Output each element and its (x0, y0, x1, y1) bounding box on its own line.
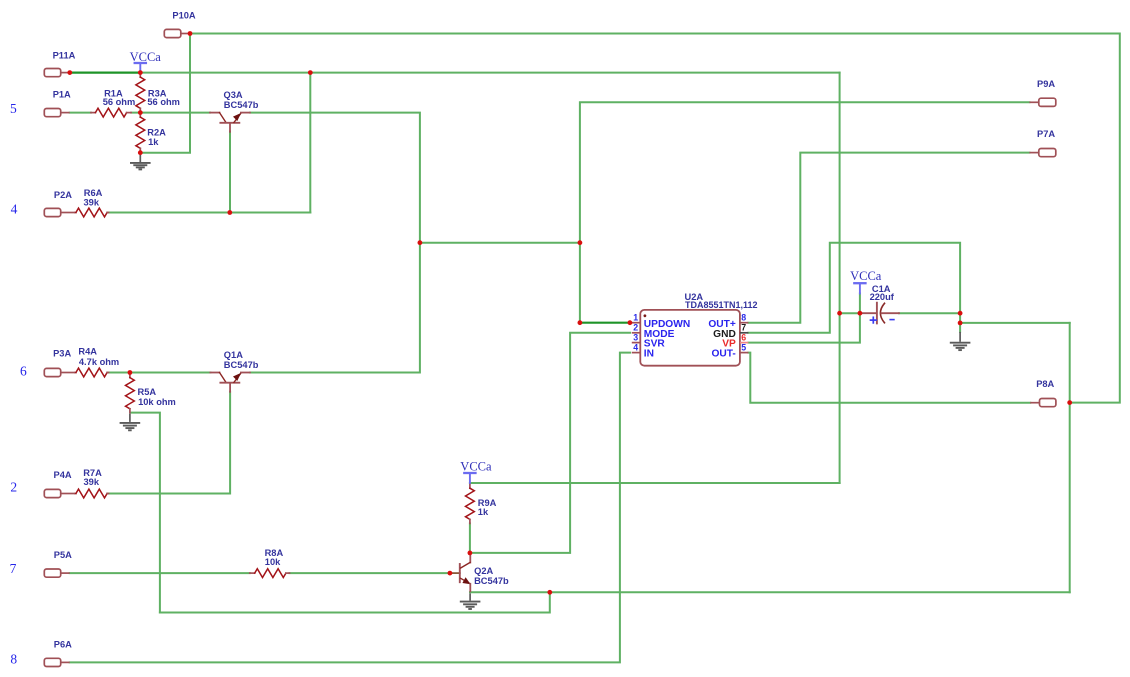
wire net UPDOWN: P9A run left and down to pin1 (580, 102, 1030, 322)
svg-text:Q2A: Q2A (474, 566, 493, 576)
node C1A minus junction (958, 311, 963, 316)
capacitor C1A 220uf (861, 303, 899, 324)
resistor R5A 10k ohm (125, 373, 134, 413)
node C1A row right junction (858, 311, 863, 316)
svg-text:P6A: P6A (54, 640, 72, 650)
svg-text:R5A: R5A (138, 387, 157, 397)
ground under R5A (120, 414, 141, 431)
wire net GND: C1A minus to ground column (899, 312, 960, 314)
svg-text:4.7k ohm: 4.7k ohm (79, 357, 119, 367)
wire net VCC: VCCa2 stem lower part (859, 294, 861, 314)
svg-text:VCCa: VCCa (460, 459, 492, 473)
svg-text:R2A: R2A (147, 127, 166, 137)
connector P11A (44, 69, 69, 77)
node VCCa1 junction (138, 70, 143, 75)
node pin1 left junction (578, 320, 583, 325)
resistor R1A 56 ohm (91, 108, 131, 117)
wire net VCC: row at R9A top (470, 482, 840, 484)
wire net GND: pin7 GND route up and over to ground col (748, 243, 960, 333)
pin 8 OUT+ stub (740, 322, 749, 324)
wire net GND: ground col to right riser (960, 322, 1070, 324)
connector P2A (44, 208, 75, 216)
svg-text:BC547b: BC547b (474, 576, 509, 586)
svg-text:4: 4 (633, 342, 638, 352)
svg-text:Q1A: Q1A (224, 350, 243, 360)
wire net IN: pin4 left down to P6A row (70, 353, 630, 663)
svg-text:P4A: P4A (54, 470, 72, 480)
connector P8A (1030, 399, 1056, 407)
svg-text:P3A: P3A (53, 349, 71, 359)
svg-text:7: 7 (741, 323, 746, 333)
resistor R7A 39k (75, 489, 109, 498)
svg-text:IN: IN (644, 349, 654, 360)
connector P6A (44, 658, 69, 666)
wire net R1A to node to Q3A (131, 112, 210, 114)
wire net UPDOWN dark segment to pin1 (580, 322, 630, 324)
wire net row6: R4A to Q1A with R5A junction (108, 372, 211, 374)
svg-text:OUT-: OUT- (711, 349, 735, 360)
svg-text:220uf: 220uf (870, 292, 895, 302)
svg-text:BC547b: BC547b (224, 100, 259, 110)
svg-text:6: 6 (741, 332, 746, 342)
resistor R2A 1k (136, 113, 145, 153)
wire net VCC dark segment P11A to VCCa1 node (70, 71, 141, 73)
pin 4 IN stub (632, 352, 641, 354)
svg-text:1k: 1k (148, 137, 159, 147)
supply VCCa symbol 3 (464, 473, 475, 483)
node mid link left junction (418, 240, 423, 245)
wire net VCC: right riser down (839, 73, 841, 483)
wire net MODE: pin2 left down to Q2A collector (470, 333, 630, 553)
svg-text:56 ohm: 56 ohm (147, 97, 180, 107)
svg-text:P7A: P7A (1037, 129, 1055, 139)
node R2A bottom junction (138, 150, 143, 155)
wire net Q1A base riser and row2 (108, 392, 231, 494)
wire net GND: Q2A emitter row (470, 591, 1070, 593)
svg-text:10k ohm: 10k ohm (138, 397, 176, 407)
wire net VCC: VP pin6 route (748, 313, 860, 342)
wire net GND: bottom run from left riser, up to emitter row (160, 592, 550, 612)
node Q3A base junction (227, 210, 232, 215)
resistor R9A 1k (466, 484, 475, 524)
svg-text:1k: 1k (478, 507, 489, 517)
wire net P5A to R8A (70, 572, 250, 574)
svg-text:P10A: P10A (172, 11, 196, 21)
svg-text:6: 6 (20, 363, 27, 378)
connector P4A (44, 489, 75, 497)
ground under Q2A (460, 593, 481, 609)
svg-text:2: 2 (10, 480, 17, 495)
connector P1A (44, 109, 69, 117)
wire net GND: R5A bottom to left riser (131, 413, 160, 613)
supply VCCa symbol 1 (135, 63, 146, 71)
node P8A junction (1067, 400, 1072, 405)
transistor Q2A BC547b (452, 553, 471, 591)
svg-text:VCCa: VCCa (850, 269, 882, 283)
pin 1 UPDOWN stub (632, 322, 641, 324)
wire net VCC: R6A riser (309, 73, 311, 213)
node C1A row left junction (837, 311, 842, 316)
wire net GND: P10A riser down to R2A bottom (141, 34, 190, 153)
resistor R4A 4.7k ohm (75, 368, 109, 377)
pin 7 GND stub (740, 332, 749, 334)
svg-text:39k: 39k (84, 477, 100, 487)
wire net P1A to R1A (70, 112, 91, 114)
svg-text:8: 8 (741, 313, 746, 323)
svg-text:10k: 10k (265, 557, 281, 567)
node P11A pin junction (67, 70, 72, 75)
pin 3 SVR stub (632, 342, 641, 344)
wire net UPDOWN: Q3A emitter to Q1A emitter loop (250, 113, 420, 373)
ground near C1A (950, 332, 971, 350)
wire net OUT+: P7A run left down to pin8 (748, 153, 1029, 323)
IC U2A TDA8551TN1,112 (632, 310, 749, 366)
pin 5 OUT- stub (740, 352, 749, 354)
svg-text:P9A: P9A (1037, 79, 1055, 89)
resistor R3A 56 ohm (136, 73, 145, 113)
node Q2A collector junction (468, 551, 473, 556)
wire net VCC: C1A row between dots (840, 312, 860, 314)
svg-text:7: 7 (10, 561, 17, 576)
svg-text:R4A: R4A (78, 346, 97, 356)
svg-text:VCCa: VCCa (130, 50, 162, 64)
wire net base Q2A row from R8A (290, 572, 450, 574)
svg-text:Q3A: Q3A (224, 90, 243, 100)
connector P10A (164, 29, 190, 37)
svg-text:2: 2 (633, 323, 638, 333)
connector P3A (44, 368, 75, 376)
node mid link right junction (578, 240, 583, 245)
resistor R6A 39k (75, 208, 109, 217)
svg-text:4: 4 (11, 201, 18, 216)
svg-text:P5A: P5A (54, 550, 72, 560)
svg-text:P2A: P2A (54, 190, 72, 200)
connector P7A (1029, 149, 1055, 157)
svg-text:TDA8551TN1,112: TDA8551TN1,112 (685, 300, 758, 310)
node ground col junction (958, 321, 963, 326)
node Q2A base junction (448, 571, 453, 576)
wire net row4: R6A to riser with Q3A base junction (108, 212, 311, 214)
node P10A junction (188, 31, 193, 36)
wire net GND: P10A top run, right edge down, to P8A junction (190, 34, 1120, 403)
node R1A R2A R3A junction (138, 110, 143, 115)
svg-text:P11A: P11A (53, 50, 76, 60)
svg-text:P8A: P8A (1036, 379, 1054, 389)
svg-text:8: 8 (10, 651, 17, 666)
wire net VCC: top row P11A to right riser (140, 72, 839, 74)
connector P5A (44, 569, 69, 577)
pin 6 VP stub (740, 342, 749, 344)
svg-text:1: 1 (633, 313, 638, 323)
svg-text:BC547b: BC547b (224, 360, 259, 370)
node pin1 right junction (628, 320, 633, 325)
wire net Q3A base riser (229, 132, 231, 213)
connector P9A (1029, 98, 1055, 106)
svg-text:56 ohm: 56 ohm (103, 97, 136, 107)
supply VCCa symbol 2 (854, 283, 865, 293)
svg-text:5: 5 (741, 342, 746, 352)
node R4A R5A junction (127, 370, 132, 375)
wire net UPDOWN: middle link (420, 242, 580, 244)
wire net GND: right riser down to emitter row (1069, 323, 1071, 592)
svg-text:P1A: P1A (53, 90, 71, 100)
transistor Q3A BC547b (210, 113, 250, 132)
resistor R8A 10k (250, 569, 290, 578)
svg-text:5: 5 (10, 101, 17, 116)
ground under R2A (130, 155, 151, 170)
wire net OUT-: pin5 down and right to P8A (748, 353, 1030, 403)
node VCC R6A riser junction (308, 70, 313, 75)
svg-text:39k: 39k (84, 197, 100, 207)
wire net R9A bottom to Q2A collector (469, 523, 471, 553)
transistor Q1A BC547b (210, 373, 250, 392)
node emitter row junction (547, 590, 552, 595)
svg-text:3: 3 (633, 332, 638, 342)
pin 2 MODE stub (632, 332, 641, 334)
